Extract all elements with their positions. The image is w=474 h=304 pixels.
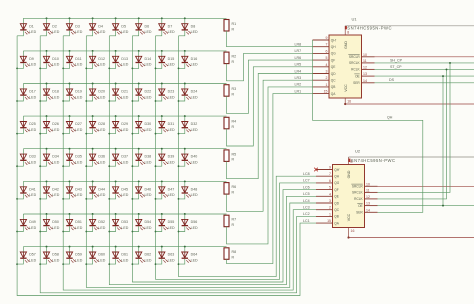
svg-text:D11: D11 — [75, 57, 81, 61]
svg-text:LED: LED — [168, 128, 175, 132]
svg-text:SH_CP: SH_CP — [390, 58, 403, 62]
LED D26 — [40, 116, 59, 134]
VCC net line from U1 pin 16 — [344, 98, 474, 105]
svg-text:LED: LED — [121, 95, 128, 99]
svg-text:LED: LED — [29, 95, 36, 99]
svg-text:3: 3 — [329, 199, 331, 203]
svg-text:LED: LED — [145, 95, 152, 99]
svg-text:QF: QF — [331, 58, 335, 62]
LED D6 — [132, 18, 151, 36]
resistor R4 — [224, 117, 236, 129]
resistor R2 — [224, 52, 236, 64]
svg-text:LED: LED — [52, 63, 59, 67]
resistor R3 — [224, 85, 236, 97]
svg-text:LED: LED — [121, 63, 128, 67]
wire: SH_CP net — [375, 62, 474, 64]
svg-text:LED: LED — [191, 226, 198, 230]
svg-text:6: 6 — [326, 49, 328, 53]
svg-text:R6: R6 — [232, 185, 237, 189]
svg-text:LED: LED — [98, 226, 105, 230]
wire: LED column 6 cathode net to LC6 — [132, 36, 316, 282]
LED D29 — [109, 116, 128, 134]
LED D23 — [156, 84, 175, 102]
svg-text:LED: LED — [75, 30, 82, 34]
svg-text:D10: D10 — [52, 57, 59, 61]
U2 pin 9 no-connect — [314, 168, 318, 172]
wire: row 3 anode bus — [23, 83, 226, 85]
svg-text:D22: D22 — [145, 90, 152, 94]
svg-text:LED: LED — [52, 226, 59, 230]
svg-text:SER: SER — [356, 211, 363, 215]
svg-text:LED: LED — [121, 226, 128, 230]
svg-text:LED: LED — [75, 193, 82, 197]
wire: row 5 anode bus — [23, 148, 226, 150]
svg-text:U2: U2 — [355, 149, 361, 154]
svg-text:LED: LED — [121, 128, 128, 132]
LED D33 — [17, 149, 36, 167]
svg-text:QF: QF — [334, 188, 338, 192]
svg-text:LR8: LR8 — [295, 43, 302, 47]
svg-text:LC1: LC1 — [303, 219, 310, 223]
svg-text:LED: LED — [75, 63, 82, 67]
LED D38 — [132, 149, 151, 167]
LED D22 — [132, 84, 151, 102]
svg-text:4: 4 — [326, 63, 328, 67]
svg-text:LED: LED — [98, 193, 105, 197]
svg-text:LC4: LC4 — [303, 199, 310, 203]
svg-text:QC: QC — [334, 208, 339, 212]
svg-text:LED: LED — [75, 161, 82, 165]
LED D10 — [40, 51, 59, 69]
svg-text:LED: LED — [98, 30, 105, 34]
svg-text:LED: LED — [145, 193, 152, 197]
svg-text:D51: D51 — [75, 220, 82, 224]
svg-text:D16: D16 — [191, 57, 198, 61]
svg-text:D31: D31 — [168, 122, 175, 126]
svg-text:LED: LED — [191, 128, 198, 132]
svg-text:RCLK: RCLK — [354, 197, 363, 201]
svg-text:7: 7 — [329, 172, 331, 176]
svg-text:GND: GND — [347, 170, 351, 178]
svg-text:D36: D36 — [98, 155, 105, 159]
svg-text:LED: LED — [145, 226, 152, 230]
U1 pin numbers — [324, 31, 367, 104]
svg-text:LR3: LR3 — [295, 76, 302, 80]
LED D42 — [40, 181, 59, 199]
svg-text:D63: D63 — [168, 253, 175, 257]
LED D13 — [109, 51, 128, 69]
svg-text:LED: LED — [29, 63, 36, 67]
svg-text:LED: LED — [145, 30, 152, 34]
LED D17 — [17, 84, 36, 102]
resistor R1 — [224, 20, 236, 32]
LED D32 — [179, 116, 198, 134]
svg-text:LR5: LR5 — [295, 63, 302, 67]
svg-text:LED: LED — [52, 193, 59, 197]
LED D24 — [179, 84, 198, 102]
svg-text:LED: LED — [121, 30, 128, 34]
svg-text:R: R — [232, 223, 235, 227]
wire: OE net — [375, 75, 474, 77]
LED D14 — [132, 51, 151, 69]
svg-text:LED: LED — [98, 63, 105, 67]
ground net line from U1 GND pin 8 — [345, 26, 474, 35]
svg-text:LED: LED — [168, 193, 175, 197]
LED D60 — [86, 247, 105, 265]
svg-text:R: R — [232, 27, 235, 31]
svg-text:SRCLK: SRCLK — [352, 191, 364, 195]
wire: net QH (U1 QH' to U2 SER) — [313, 40, 423, 212]
svg-text:R1: R1 — [232, 22, 237, 26]
svg-text:10: 10 — [366, 182, 370, 186]
svg-text:7: 7 — [326, 43, 328, 47]
svg-text:LED: LED — [29, 226, 36, 230]
svg-text:D35: D35 — [75, 155, 82, 159]
LED D48 — [179, 181, 198, 199]
svg-text:RCLK: RCLK — [351, 68, 360, 72]
svg-text:4: 4 — [329, 192, 331, 196]
svg-text:LR7: LR7 — [295, 49, 302, 53]
svg-text:D21: D21 — [121, 90, 128, 94]
svg-text:12: 12 — [366, 195, 370, 199]
svg-text:D56: D56 — [191, 220, 198, 224]
LED D57 — [17, 247, 36, 265]
VCC net line from U2 pin 16 — [347, 228, 474, 239]
svg-text:D19: D19 — [75, 90, 82, 94]
U2 pin numbers — [327, 160, 370, 233]
svg-text:D25: D25 — [29, 122, 36, 126]
svg-text:VCC: VCC — [344, 84, 348, 92]
LED D50 — [40, 214, 59, 232]
svg-text:R: R — [232, 190, 235, 194]
svg-text:15: 15 — [324, 90, 328, 94]
svg-text:SRCLR: SRCLR — [352, 185, 364, 189]
svg-text:LED: LED — [145, 258, 152, 262]
wire: LED column 7 cathode net to LC7 — [156, 36, 317, 279]
LED D45 — [109, 181, 128, 199]
svg-text:D48: D48 — [191, 187, 198, 191]
wire: LED column 1 cathode net to LC1 — [17, 36, 316, 296]
wire: LED column 4 cathode net to LC4 — [86, 36, 316, 288]
svg-text:D14: D14 — [145, 57, 152, 61]
svg-text:LED: LED — [29, 161, 36, 165]
wire: net LR1 (R8 to U1) — [227, 94, 313, 264]
svg-text:LED: LED — [29, 128, 36, 132]
wire: U2 OE tie net — [378, 75, 474, 206]
svg-text:D46: D46 — [145, 187, 152, 191]
LED D53 — [109, 214, 128, 232]
svg-text:9: 9 — [326, 36, 328, 40]
ground net line from U2 GND pin 8 — [349, 157, 474, 165]
svg-text:LED: LED — [75, 258, 82, 262]
svg-text:LED: LED — [168, 258, 175, 262]
svg-text:LED: LED — [121, 193, 128, 197]
svg-text:LED: LED — [52, 128, 59, 132]
svg-text:DS: DS — [389, 78, 395, 82]
svg-text:D64: D64 — [191, 253, 198, 257]
svg-text:LED: LED — [168, 161, 175, 165]
LED D40 — [179, 149, 198, 167]
svg-text:LED: LED — [52, 161, 59, 165]
svg-text:D3: D3 — [75, 24, 80, 28]
svg-text:LED: LED — [52, 30, 59, 34]
wire: net LR3 (R6 to U1) — [227, 80, 313, 211]
svg-text:R7: R7 — [232, 218, 237, 222]
svg-text:D50: D50 — [52, 220, 59, 224]
U2 pin names — [334, 168, 363, 226]
LED D3 — [63, 18, 82, 36]
svg-text:R3: R3 — [232, 87, 237, 91]
svg-text:LED: LED — [121, 258, 128, 262]
LED D4 — [86, 18, 105, 36]
svg-text:3: 3 — [326, 70, 328, 74]
svg-text:D2: D2 — [52, 24, 57, 28]
svg-text:12: 12 — [363, 65, 367, 69]
svg-text:15: 15 — [327, 219, 331, 223]
LED D16 — [179, 51, 198, 69]
svg-text:LED: LED — [145, 128, 152, 132]
LED D36 — [86, 149, 105, 167]
svg-text:QG: QG — [334, 181, 339, 185]
svg-text:D29: D29 — [121, 122, 128, 126]
LED D20 — [86, 84, 105, 102]
LED D30 — [132, 116, 151, 134]
LED D28 — [86, 116, 105, 134]
svg-text:D9: D9 — [29, 57, 34, 61]
svg-text:D27: D27 — [75, 122, 82, 126]
svg-text:D59: D59 — [75, 253, 82, 257]
wire: U1 SRCLR net — [375, 56, 474, 58]
svg-text:LED: LED — [75, 95, 82, 99]
svg-text:R5: R5 — [232, 152, 237, 156]
svg-text:D61: D61 — [121, 253, 128, 257]
svg-text:LED: LED — [191, 193, 198, 197]
svg-text:10: 10 — [363, 53, 367, 57]
svg-text:D60: D60 — [98, 253, 105, 257]
LED D41 — [17, 181, 36, 199]
wire: row 8 anode bus — [23, 246, 226, 248]
svg-text:D47: D47 — [168, 187, 175, 191]
svg-text:D5: D5 — [121, 24, 126, 28]
resistor R5 — [224, 150, 236, 162]
svg-text:GND: GND — [344, 41, 348, 49]
svg-text:R: R — [232, 256, 235, 260]
LED D64 — [179, 247, 198, 265]
svg-text:LED: LED — [191, 258, 198, 262]
wire: LED column 2 cathode net to LC2 — [40, 36, 316, 293]
svg-text:D26: D26 — [52, 122, 59, 126]
svg-text:D57: D57 — [29, 253, 36, 257]
svg-text:5: 5 — [326, 56, 328, 60]
svg-text:LED: LED — [75, 128, 82, 132]
svg-text:LED: LED — [52, 95, 59, 99]
svg-text:D7: D7 — [168, 24, 173, 28]
LED D54 — [132, 214, 151, 232]
svg-text:QH': QH' — [334, 168, 340, 172]
svg-text:LC2: LC2 — [303, 212, 310, 216]
wire: U2 SRCLR net — [378, 185, 474, 187]
svg-text:LED: LED — [52, 258, 59, 262]
LED D43 — [63, 181, 82, 199]
wire: LED column 3 cathode net to LC3 — [63, 36, 316, 290]
svg-text:SER: SER — [353, 81, 360, 85]
LED D9 — [17, 51, 36, 69]
svg-text:LR2: LR2 — [295, 83, 302, 87]
svg-text:OE: OE — [358, 204, 363, 208]
svg-text:14: 14 — [366, 208, 370, 212]
svg-text:LED: LED — [98, 128, 105, 132]
resistor R8 — [224, 248, 236, 260]
svg-text:QH': QH' — [331, 38, 337, 42]
LED D39 — [156, 149, 175, 167]
svg-text:2: 2 — [329, 206, 331, 210]
op-amp U1 pin stubs left — [313, 40, 375, 94]
svg-text:D54: D54 — [145, 220, 152, 224]
svg-text:5: 5 — [329, 186, 331, 190]
svg-text:R: R — [232, 60, 235, 64]
svg-text:LC5: LC5 — [303, 192, 310, 196]
LED D19 — [63, 84, 82, 102]
LED D47 — [156, 181, 175, 199]
svg-text:QC: QC — [331, 79, 336, 83]
svg-text:LR1: LR1 — [295, 89, 302, 93]
wire: LED column 8 cathode net to LC8 — [179, 36, 317, 277]
svg-text:D12: D12 — [98, 57, 105, 61]
svg-text:QD: QD — [334, 201, 339, 205]
LED D21 — [109, 84, 128, 102]
svg-text:8: 8 — [347, 31, 349, 35]
svg-text:11: 11 — [363, 59, 367, 63]
svg-text:QE: QE — [331, 65, 336, 69]
resistor R6 — [224, 183, 236, 195]
svg-text:D62: D62 — [145, 253, 152, 257]
svg-text:R: R — [232, 125, 235, 129]
svg-text:1: 1 — [329, 212, 331, 216]
svg-text:LED: LED — [191, 95, 198, 99]
LED D15 — [156, 51, 175, 69]
LED D55 — [156, 214, 175, 232]
svg-text:LED: LED — [29, 193, 36, 197]
svg-text:LED: LED — [168, 30, 175, 34]
LED D44 — [86, 181, 105, 199]
svg-text:LED: LED — [191, 161, 198, 165]
LED D8 — [179, 18, 198, 36]
svg-text:LED: LED — [29, 30, 36, 34]
svg-text:D33: D33 — [29, 155, 36, 159]
svg-text:13: 13 — [366, 202, 370, 206]
svg-text:D55: D55 — [168, 220, 175, 224]
svg-text:R4: R4 — [232, 120, 237, 124]
svg-text:LED: LED — [98, 161, 105, 165]
svg-text:LED: LED — [145, 63, 152, 67]
svg-text:QH: QH — [334, 175, 339, 179]
svg-text:D45: D45 — [121, 187, 128, 191]
LED D27 — [63, 116, 82, 134]
svg-text:16: 16 — [351, 229, 355, 233]
svg-text:QG: QG — [331, 52, 336, 56]
wire: net LR8 (R1 to U1 QH) — [227, 31, 313, 47]
wire: net LR2 (R7 to U1) — [227, 87, 313, 244]
svg-text:D13: D13 — [121, 57, 128, 61]
svg-text:LED: LED — [75, 226, 82, 230]
svg-text:QE: QE — [334, 195, 339, 199]
svg-text:LED: LED — [191, 30, 198, 34]
LED D2 — [40, 18, 59, 36]
svg-text:R8: R8 — [232, 250, 237, 254]
svg-text:SRCLR: SRCLR — [349, 55, 361, 59]
LED D52 — [86, 214, 105, 232]
wire: net LR4 (R5 to U1) — [227, 74, 313, 179]
LED D5 — [109, 18, 128, 36]
svg-text:D4: D4 — [98, 24, 103, 28]
svg-text:D58: D58 — [52, 253, 59, 257]
svg-text:R: R — [232, 158, 235, 162]
junction dots on row buses — [46, 17, 186, 247]
svg-text:D17: D17 — [29, 90, 36, 94]
svg-text:R: R — [232, 93, 235, 97]
U2 body — [333, 165, 365, 228]
svg-text:OE: OE — [355, 74, 360, 78]
svg-text:D39: D39 — [168, 155, 175, 159]
svg-text:D43: D43 — [75, 187, 82, 191]
svg-text:D44: D44 — [98, 187, 105, 191]
wire: ST_CP net — [375, 68, 474, 70]
svg-text:D53: D53 — [121, 220, 128, 224]
svg-text:ST_CP: ST_CP — [390, 65, 402, 69]
LED D18 — [40, 84, 59, 102]
svg-text:LED: LED — [191, 63, 198, 67]
svg-text:LED: LED — [145, 161, 152, 165]
LED D59 — [63, 247, 82, 265]
svg-text:LED: LED — [121, 161, 128, 165]
svg-text:VCC: VCC — [347, 213, 351, 221]
LED D35 — [63, 149, 82, 167]
LED D12 — [86, 51, 105, 69]
svg-text:LED: LED — [98, 258, 105, 262]
wire: LED column 5 cathode net to LC5 — [109, 36, 316, 285]
svg-text:D18: D18 — [52, 90, 59, 94]
svg-text:14: 14 — [363, 79, 367, 83]
svg-text:LED: LED — [29, 258, 36, 262]
LED D46 — [132, 181, 151, 199]
svg-text:R2: R2 — [232, 55, 237, 59]
LED D34 — [40, 149, 59, 167]
LED D56 — [179, 214, 198, 232]
LED D31 — [156, 116, 175, 134]
LED D7 — [156, 18, 175, 36]
svg-text:QB: QB — [334, 215, 339, 219]
wire: row 2 anode bus — [23, 50, 226, 52]
svg-text:LC3: LC3 — [303, 206, 310, 210]
svg-text:QB: QB — [331, 85, 336, 89]
LED D58 — [40, 247, 59, 265]
wire: row 7 anode bus — [23, 213, 226, 215]
svg-text:D15: D15 — [168, 57, 175, 61]
svg-text:SRCLK: SRCLK — [349, 61, 361, 65]
svg-text:11: 11 — [366, 188, 370, 192]
svg-text:LR4: LR4 — [295, 69, 302, 73]
svg-text:QD: QD — [331, 72, 336, 76]
svg-text:D23: D23 — [168, 90, 175, 94]
svg-text:D6: D6 — [145, 24, 150, 28]
svg-text:2: 2 — [326, 76, 328, 80]
svg-text:LED: LED — [168, 63, 175, 67]
LED D11 — [63, 51, 82, 69]
wire: net LR5 (R4 to U1) — [227, 67, 313, 146]
svg-text:D32: D32 — [191, 122, 198, 126]
resistor R7 — [224, 215, 236, 227]
svg-text:9: 9 — [329, 166, 331, 170]
